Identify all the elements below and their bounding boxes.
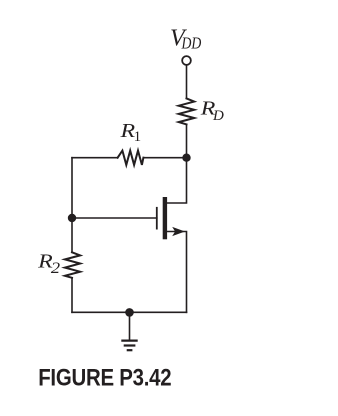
wire source lead and right rail down: [167, 232, 186, 313]
wire VDD terminal to RD: [186, 65, 188, 99]
transistor M1 source arrow: [172, 227, 185, 236]
node junction dot at drain/R1: [182, 154, 190, 162]
svg-text:1: 1: [134, 129, 142, 145]
node VDD terminal circle: [182, 56, 191, 65]
ground symbol bars: [121, 341, 137, 351]
wire gate lead from left rail to gate: [72, 217, 157, 219]
wire R1 to drain node: [143, 157, 186, 159]
wire RD to drain node and drain lead: [167, 124, 186, 203]
resistor R2: [65, 252, 80, 277]
transistor M1 gate line: [156, 208, 158, 229]
svg-text:D: D: [212, 108, 224, 124]
wire bottom rail: [72, 311, 187, 313]
transistor M1 channel bar: [163, 197, 167, 239]
node junction dot at ground: [125, 308, 134, 317]
wire left rail lower segment: [71, 278, 73, 313]
svg-text:FIGURE P3.42: FIGURE P3.42: [38, 364, 171, 391]
resistor RD: [179, 98, 195, 124]
resistor R1: [118, 151, 144, 165]
svg-text:DD: DD: [181, 34, 202, 53]
wire left rail upper segment: [71, 158, 73, 253]
wire ground stem: [129, 312, 131, 340]
node junction dot at gate/R1/R2: [68, 214, 76, 222]
svg-text:2: 2: [51, 260, 60, 277]
wire R1 net: left rail top corner through R1 to drain node: [72, 157, 118, 159]
